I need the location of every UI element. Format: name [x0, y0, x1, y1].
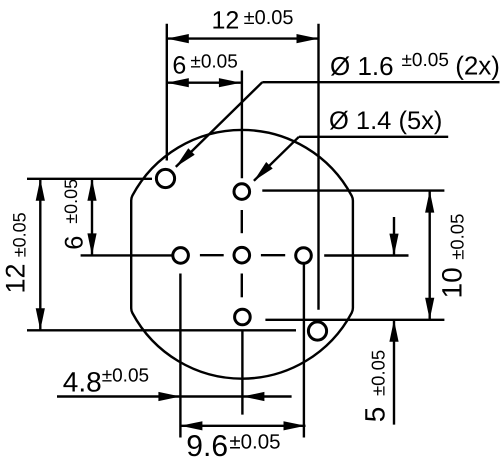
extension line below hole C	[179, 274, 181, 438]
svg-text:12: 12	[212, 7, 240, 35]
extension line left middle row	[81, 254, 172, 256]
arrow left-12 up	[36, 179, 45, 201]
right 5 dimension upper tail	[393, 217, 395, 256]
extension line left of top 12 dim	[166, 24, 168, 161]
svg-text:Ø 1.6: Ø 1.6	[330, 51, 394, 81]
arrow top-12 left	[167, 34, 189, 43]
extension line right of top 12 dim	[317, 24, 319, 310]
extension line right middle row (hole E)	[324, 254, 408, 256]
extension line center column top	[241, 71, 243, 179]
arrow right-10 up	[425, 191, 434, 213]
bottom 9.6 dimension line	[180, 425, 305, 427]
svg-text:9.6: 9.6	[186, 430, 228, 460]
left 12 dimension line	[39, 179, 41, 330]
svg-text:±0.05: ±0.05	[190, 52, 237, 73]
arrow top-6 left	[167, 78, 189, 87]
svg-text:±0.05: ±0.05	[229, 431, 280, 454]
extension line below hole E	[303, 264, 305, 437]
arrow 4.8 left (points right)	[158, 392, 180, 401]
extension line below hole F	[241, 330, 243, 415]
arrow 9.6 right	[284, 421, 306, 430]
hole C (O 1.4) middle-left	[173, 248, 189, 264]
left 6 dimension line	[91, 179, 93, 256]
top 12 dimension line	[167, 37, 319, 39]
svg-text:5: 5	[360, 407, 391, 423]
arrow right-10 down	[425, 298, 434, 320]
hole F (O 1.4) bottom-center	[235, 309, 251, 325]
hole D (O 1.4) center	[234, 247, 250, 263]
svg-text:±0.05: ±0.05	[368, 350, 389, 396]
svg-text:4.8: 4.8	[63, 366, 102, 397]
svg-text:±0.05: ±0.05	[244, 7, 294, 29]
svg-text:±0.05: ±0.05	[102, 366, 149, 387]
svg-text:±0.05: ±0.05	[402, 50, 449, 71]
centerline dash between holes D and E	[261, 254, 285, 256]
arrow left-6 up	[87, 179, 96, 201]
leader line diagonal for 1.6 label	[176, 82, 262, 167]
leader line diagonal for 1.4 label	[254, 137, 299, 181]
hole A (O 1.6) upper-left	[156, 169, 174, 187]
arrow right-5 down	[389, 234, 398, 256]
bottom 4.8 dimension line	[57, 395, 292, 397]
arrow 9.6 left	[180, 421, 202, 430]
centerline dash between holes C and D	[200, 254, 224, 256]
leader arrow to hole B	[254, 162, 273, 181]
extension line right bottom row (hole F)	[265, 319, 444, 321]
centerline dash between holes B and D	[241, 210, 243, 233]
leader line horizontal for 1.6 label	[262, 81, 499, 83]
hole E (O 1.4) middle-right	[296, 248, 312, 264]
hole B (O 1.4) upper-middle	[234, 184, 250, 200]
centerline dash between holes D and F	[241, 274, 243, 298]
arrow left-12 down	[36, 308, 45, 330]
extension line left top row	[27, 178, 152, 180]
arrow right-5 up	[389, 320, 398, 342]
svg-text:6: 6	[61, 236, 89, 250]
svg-text:6: 6	[172, 51, 186, 79]
svg-text:±0.05: ±0.05	[447, 214, 468, 260]
arrow top-6 right	[219, 78, 241, 87]
svg-text:12: 12	[1, 263, 31, 293]
svg-text:(2x): (2x)	[455, 51, 500, 81]
extension line right top row (hole B)	[262, 189, 444, 191]
hole G (O 1.6) bottom-right	[308, 322, 326, 340]
right 5 dimension lower tail	[393, 320, 395, 425]
svg-text:±0.05: ±0.05	[61, 179, 81, 224]
connector body outline	[131, 130, 353, 379]
arrow top-12 right	[297, 34, 319, 43]
arrow 4.8 right (points left)	[242, 392, 264, 401]
leader arrow to hole A	[176, 148, 195, 167]
svg-text:Ø 1.4 (5x): Ø 1.4 (5x)	[329, 107, 442, 135]
arrow left-6 down	[87, 233, 96, 255]
top 6 dimension line	[167, 81, 241, 83]
right 10 dimension line	[429, 191, 431, 320]
leader line horizontal for 1.4 label	[299, 136, 448, 138]
extension line bottom row (to hole G)	[27, 329, 296, 331]
svg-text:10: 10	[436, 267, 467, 298]
svg-text:±0.05: ±0.05	[10, 212, 30, 257]
